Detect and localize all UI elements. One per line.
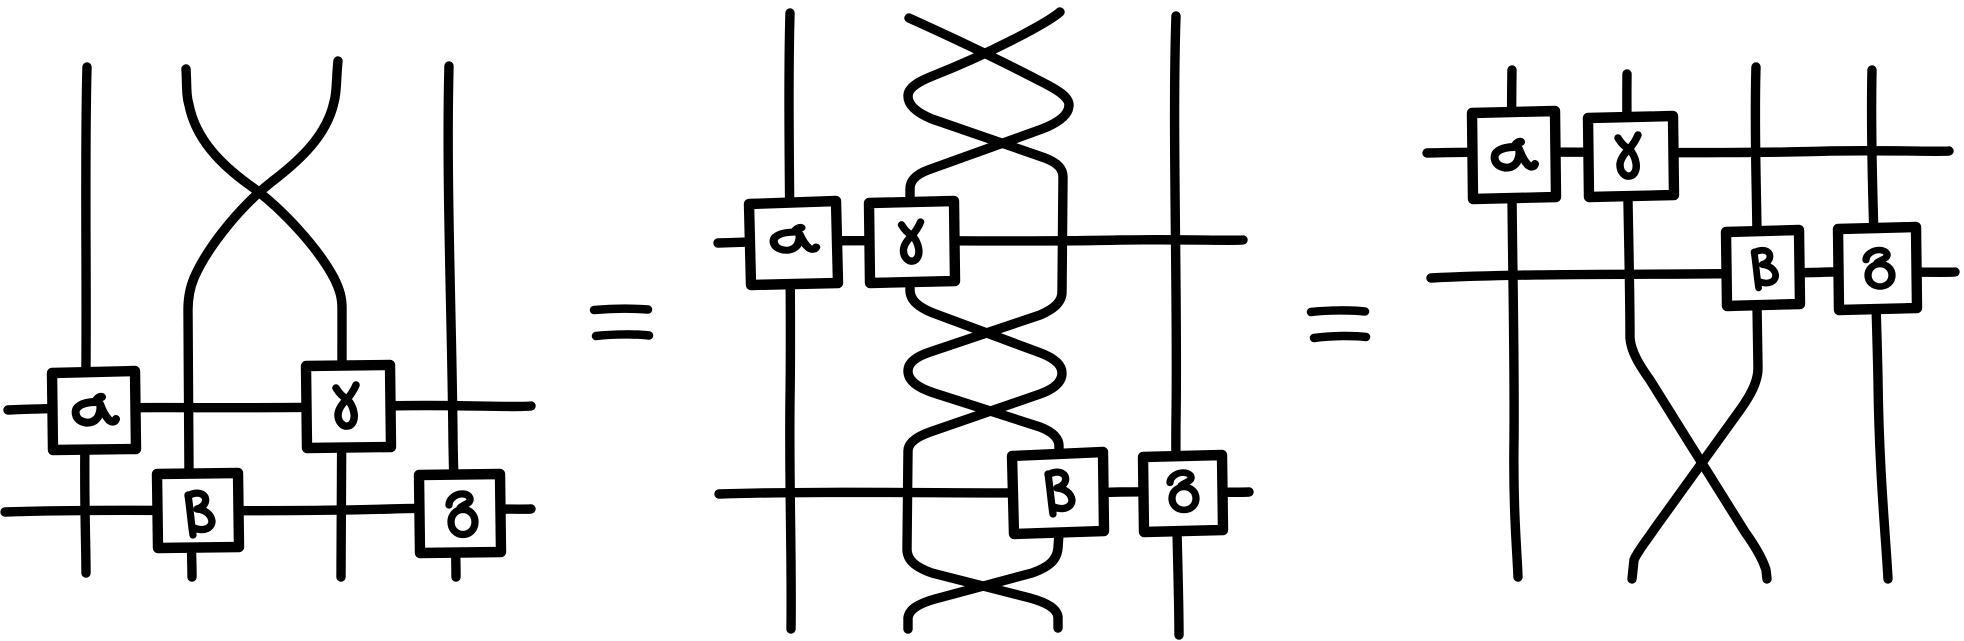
box delta (left diagram)	[419, 474, 501, 553]
box gamma (left diagram)	[306, 365, 391, 448]
box alpha (right diagram)	[1472, 111, 1556, 199]
box alpha (middle diagram)	[749, 201, 838, 285]
wire: left diagram vertical wire 4	[448, 66, 456, 577]
wire: middle diagram horizontal wire 1 through alpha and gamma	[718, 240, 1243, 243]
box gamma (middle diagram)	[869, 201, 955, 283]
box beta (left diagram)	[157, 473, 239, 548]
wire: left diagram wire 3 (crosses left into beta box)	[188, 61, 338, 577]
wire: middle diagram vertical wire 1 through alpha	[789, 13, 791, 629]
wire: right diagram horizontal wire 2 through beta and delta	[1431, 272, 1955, 278]
box delta (middle diagram)	[1143, 455, 1223, 532]
wire: right diagram wire 3 (through beta, crosses left at bottom)	[1632, 67, 1758, 579]
box beta (middle diagram)	[1012, 452, 1104, 534]
wire: right diagram wire 2 (through gamma, crosses right at bottom)	[1627, 74, 1767, 579]
box alpha (left diagram)	[52, 371, 136, 450]
wire: middle diagram horizontal wire 2 through beta and delta	[719, 492, 1249, 494]
box beta (right diagram)	[1726, 230, 1800, 306]
wire: middle diagram braid wire R (top right, through beta, ends bottom left)	[908, 12, 1063, 629]
wire: middle diagram braid wire L (top left, through gamma, ends bottom right)	[907, 18, 1069, 628]
wire: right diagram vertical wire 1 through alpha	[1512, 70, 1518, 577]
wire: middle diagram vertical wire 4	[1175, 16, 1179, 635]
wire: left diagram horizontal wire 2 through beta and delta	[5, 508, 531, 512]
wire: left diagram wire 2 (crosses right into gamma box)	[186, 69, 342, 577]
wire: left diagram horizontal wire 1 through alpha and gamma	[8, 405, 531, 410]
box gamma (right diagram)	[1588, 116, 1674, 197]
wire: right diagram horizontal wire 1 through alpha and gamma	[1427, 151, 1949, 153]
equals sign 1	[594, 309, 649, 336]
box delta (right diagram)	[1838, 227, 1917, 310]
equals sign 2	[1311, 310, 1366, 338]
wire: right diagram vertical wire 4 through delta	[1872, 70, 1888, 579]
wire: left diagram vertical wire 1	[85, 67, 87, 573]
